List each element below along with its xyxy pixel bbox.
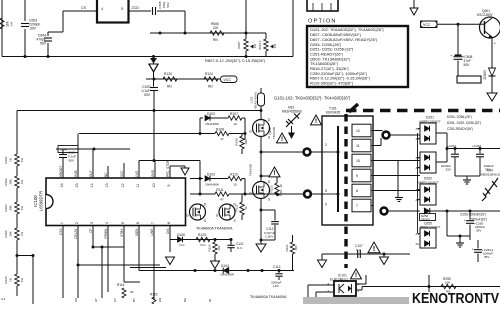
svg-text:C140: C140 <box>60 148 68 152</box>
svg-text:7: 7 <box>356 204 358 208</box>
svg-text:R123: R123 <box>270 185 274 192</box>
svg-text:TK4A600A TK4A600A: TK4A600A TK4A600A <box>196 226 233 230</box>
svg-text:RFMIN: RFMIN <box>104 228 108 239</box>
svg-text:RD: RD <box>167 85 172 89</box>
svg-text:10: 10 <box>233 122 237 126</box>
svg-text:50V: 50V <box>40 42 47 46</box>
svg-text:R124: R124 <box>208 244 212 251</box>
svg-text:R126: R126 <box>4 276 8 284</box>
svg-text:NE: NE <box>183 298 187 302</box>
svg-text:C251-READY|26"|: C251-READY|26"| <box>447 127 473 131</box>
svg-text:N.C: N.C <box>356 248 362 252</box>
svg-text:AY: AY <box>94 298 98 302</box>
svg-text:LINE: LINE <box>150 229 154 236</box>
svg-text:10: 10 <box>356 159 360 163</box>
svg-text:NC: NC <box>104 172 108 177</box>
svg-text:50V: 50V <box>144 93 151 97</box>
svg-text:5: 5 <box>121 7 123 11</box>
svg-text:1N4148W: 1N4148W <box>205 183 219 187</box>
svg-text:MED61B41(3): MED61B41(3) <box>481 173 500 177</box>
svg-text:10: 10 <box>233 183 237 187</box>
svg-text:IC100: IC100 <box>33 195 38 207</box>
svg-text:BY: BY <box>132 298 136 302</box>
svg-text:GND: GND <box>151 169 155 177</box>
svg-text:2: 2 <box>325 143 327 147</box>
svg-text:35V: 35V <box>476 229 481 233</box>
svg-text:47: 47 <box>220 137 224 141</box>
svg-text:220: 220 <box>213 26 219 30</box>
svg-text:1N4148W: 1N4148W <box>220 273 234 277</box>
svg-text:TK6A600: TK6A600 <box>249 164 253 176</box>
svg-text:8: 8 <box>167 222 171 224</box>
svg-text:10K: 10K <box>445 281 450 285</box>
svg-text:1KV: 1KV <box>273 284 280 288</box>
svg-text:R124: R124 <box>205 72 213 76</box>
svg-text:2W: 2W <box>273 44 277 49</box>
svg-text:1: 1 <box>60 222 64 224</box>
svg-text:R116: R116 <box>117 283 125 287</box>
svg-text:10: 10 <box>152 183 156 187</box>
svg-text:1K: 1K <box>9 278 13 282</box>
svg-text:PFC_STOP: PFC_STOP <box>166 160 170 177</box>
svg-text:R607-0.12..2W|32"|- 0.15.2W|2: R607-0.12..2W|32"|- 0.15.2W|26"| <box>205 58 265 63</box>
svg-text:1K: 1K <box>9 158 13 162</box>
svg-text:11: 11 <box>356 144 360 148</box>
svg-text:1%: 1% <box>10 22 14 27</box>
svg-text:A2: A2 <box>416 242 420 246</box>
svg-text:EER3435: EER3435 <box>326 111 340 115</box>
svg-text:50V: 50V <box>69 159 75 163</box>
svg-text:TK6A600: TK6A600 <box>272 127 276 139</box>
svg-text:KENOTRONTV: KENOTRONTV <box>412 291 499 304</box>
svg-text:SB260: SB260 <box>421 217 430 221</box>
svg-text:4: 4 <box>101 7 103 11</box>
svg-text:!: ! <box>355 272 357 279</box>
svg-text:R120: R120 <box>164 72 172 76</box>
svg-text:15: 15 <box>75 183 79 187</box>
svg-text:3: 3 <box>90 222 94 224</box>
svg-text:IB: IB <box>208 299 212 302</box>
svg-text:R107: R107 <box>230 112 238 116</box>
svg-text:R103: R103 <box>4 204 8 212</box>
svg-text:12: 12 <box>356 129 360 133</box>
svg-text:6: 6 <box>136 222 140 224</box>
svg-text:35V: 35V <box>446 168 451 172</box>
svg-text:STBY: STBY <box>120 228 124 237</box>
svg-text:10K: 10K <box>294 245 298 250</box>
svg-text:ZCD: ZCD <box>132 6 140 10</box>
svg-text:EN: EN <box>158 298 162 302</box>
svg-text:D254- D256-|26"|: D254- D256-|26"| <box>447 115 472 119</box>
svg-text:7: 7 <box>151 222 155 224</box>
svg-text:MED452580S: MED452580S <box>282 110 302 114</box>
svg-text:8: 8 <box>356 189 358 193</box>
svg-text:0.4: 0.4 <box>1 297 6 301</box>
svg-text:1N4148W: 1N4148W <box>205 122 219 126</box>
svg-text:9: 9 <box>167 184 171 186</box>
svg-text:TK4A600A TK4A600A: TK4A600A TK4A600A <box>250 295 287 299</box>
svg-text:CSS: CSS <box>59 229 63 236</box>
svg-text:39K: 39K <box>9 205 13 210</box>
svg-text:S: S <box>268 198 270 202</box>
svg-text:LVG: LVG <box>135 170 139 177</box>
svg-text:D104: D104 <box>221 264 229 268</box>
svg-text:N.C: N.C <box>237 246 243 250</box>
svg-text:2: 2 <box>75 222 79 224</box>
svg-text:RD: RD <box>208 85 213 89</box>
svg-text:+: + <box>472 248 474 252</box>
svg-text:N.C: N.C <box>179 243 185 247</box>
svg-text:KSC2383Y: KSC2383Y <box>477 13 494 17</box>
svg-text:G101-102: TK6A60D|32"|- TK4A6: G101-102: TK6A60D|32"|- TK4A60D|26"| <box>274 96 350 101</box>
svg-text:1K: 1K <box>244 206 248 210</box>
svg-text:+: + <box>464 219 466 223</box>
svg-text:BEAD-AXIAL: BEAD-AXIAL <box>254 91 258 108</box>
svg-text:2W: 2W <box>253 44 257 49</box>
svg-text:SS: SS <box>74 298 78 302</box>
svg-text:D102: D102 <box>207 112 215 116</box>
svg-text:50V: 50V <box>30 27 37 31</box>
svg-text:VCC: VCC <box>120 170 124 177</box>
svg-text:S: S <box>268 136 270 140</box>
svg-text:!: ! <box>373 244 375 253</box>
svg-text:CF: CF <box>113 298 117 302</box>
svg-text:2K: 2K <box>130 290 134 294</box>
svg-text:RN: RN <box>213 38 218 42</box>
svg-text:14: 14 <box>90 183 94 187</box>
svg-text:10K: 10K <box>217 245 221 250</box>
svg-text:MBRF10100CT: MBRF10100CT <box>420 225 441 229</box>
svg-text:10K: 10K <box>244 139 248 144</box>
svg-text:R110: R110 <box>230 173 238 177</box>
svg-text:S: S <box>234 219 236 223</box>
svg-text:N.C: N.C <box>200 243 206 247</box>
svg-text:C253-1000uF|26"|: C253-1000uF|26"| <box>460 213 486 217</box>
svg-text:13: 13 <box>105 183 109 187</box>
svg-text:!: ! <box>273 170 275 177</box>
svg-text:VCC: VCC <box>224 78 232 82</box>
svg-text:R125: R125 <box>198 233 206 237</box>
svg-text:C113: C113 <box>273 265 281 269</box>
svg-text:1%: 1% <box>20 179 24 184</box>
svg-text:16: 16 <box>60 183 64 187</box>
svg-text:CF: CF <box>89 228 93 232</box>
svg-text:R111: R111 <box>216 188 224 192</box>
svg-text:OUT: OUT <box>89 170 93 177</box>
svg-text:VCC: VCC <box>423 23 431 27</box>
svg-text:1%: 1% <box>20 277 24 282</box>
svg-text:1%: 1% <box>20 231 24 236</box>
svg-text:!: ! <box>281 136 283 143</box>
svg-text:A1: A1 <box>416 127 420 131</box>
svg-text:D106: D106 <box>177 233 185 237</box>
svg-text:CS: CS <box>81 6 87 10</box>
svg-text:50V: 50V <box>166 2 170 7</box>
svg-text:5: 5 <box>121 222 125 224</box>
svg-text:R113: R113 <box>285 244 289 251</box>
svg-text:9: 9 <box>356 174 358 178</box>
svg-text:HBOOT: HBOOT <box>59 166 63 177</box>
svg-text:R607: R607 <box>237 41 241 49</box>
svg-text:R119-390|32"|- 470|26"|: R119-390|32"|- 470|26"| <box>310 81 353 86</box>
svg-text:6: 6 <box>325 203 327 207</box>
svg-text:!: ! <box>315 118 317 125</box>
svg-text:1/2W: 1/2W <box>279 189 283 196</box>
svg-text:4: 4 <box>105 222 109 224</box>
svg-text:1K: 1K <box>279 184 283 188</box>
svg-text:+C251: +C251 <box>447 144 456 148</box>
svg-text:L6599DTR: L6599DTR <box>39 191 44 211</box>
svg-text:D103: D103 <box>207 173 215 177</box>
svg-text:47: 47 <box>220 198 224 202</box>
svg-text:12: 12 <box>121 183 125 187</box>
svg-text:ISEN: ISEN <box>135 228 139 236</box>
svg-text:+C252: +C252 <box>472 144 481 148</box>
svg-text:R104: R104 <box>4 230 8 238</box>
svg-text:DIS: DIS <box>166 229 170 234</box>
svg-text:D251- D252- D256-|32"|: D251- D252- D256-|32"| <box>447 121 481 125</box>
svg-text:R607-1: R607-1 <box>258 40 262 50</box>
svg-text:35V: 35V <box>484 255 489 259</box>
svg-text:1.2KV: 1.2KV <box>265 235 274 239</box>
svg-text:50V: 50V <box>464 63 471 67</box>
svg-text:S: S <box>204 219 206 223</box>
svg-text:1%: 1% <box>20 157 24 162</box>
svg-text:39K: 39K <box>9 231 13 236</box>
svg-text:R122: R122 <box>150 293 158 297</box>
svg-text:39K: 39K <box>9 179 13 184</box>
svg-text:11: 11 <box>136 184 140 188</box>
svg-text:HVB: HVB <box>74 170 78 177</box>
svg-text:1%: 1% <box>20 205 24 210</box>
svg-text:DELAY: DELAY <box>74 228 78 239</box>
svg-text:R102: R102 <box>4 178 8 186</box>
svg-text:R108: R108 <box>216 127 224 131</box>
svg-text:5: 5 <box>325 189 327 193</box>
svg-text:OPTION: OPTION <box>308 19 337 25</box>
svg-text:ZD603: ZD603 <box>483 70 487 80</box>
svg-text:R101: R101 <box>4 156 8 164</box>
svg-text:R109: R109 <box>235 138 239 146</box>
